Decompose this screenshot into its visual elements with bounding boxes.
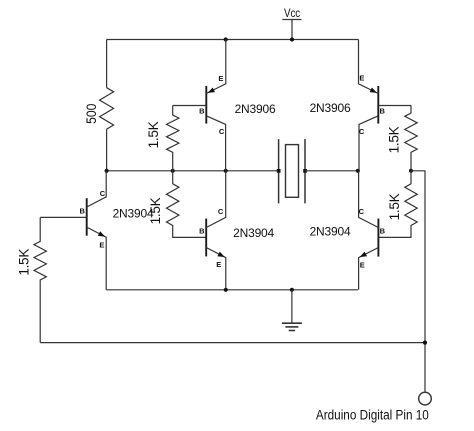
svg-text:C: C — [359, 207, 365, 216]
junction dot right R4 R5 — [409, 169, 413, 173]
junction dot Vcc rail — [290, 37, 294, 41]
resistor R2 1.5K upper-left — [167, 106, 179, 171]
svg-text:E: E — [216, 260, 221, 269]
svg-text:C: C — [359, 127, 365, 136]
wire mid rail right — [305, 170, 358, 172]
svg-text:Arduino Digital Pin 10: Arduino Digital Pin 10 — [316, 406, 429, 422]
resistor R5 1.5K lower-right — [378, 171, 417, 238]
resistor R6 1.5K feedback — [34, 217, 46, 342]
svg-text:C: C — [219, 127, 225, 136]
svg-text:2N3906: 2N3906 — [310, 101, 351, 115]
resistor R1 500 — [100, 88, 114, 130]
svg-text:B: B — [79, 207, 85, 216]
resistor R4 1.5K upper-right — [405, 106, 417, 171]
svg-text:1.5K: 1.5K — [386, 126, 401, 153]
transistor Q1 2N3904 left — [40, 171, 106, 290]
svg-text:Vcc: Vcc — [284, 7, 301, 20]
junction dot crystal left — [277, 169, 281, 173]
junction dot mid-left B — [171, 169, 175, 173]
svg-text:C: C — [218, 207, 224, 216]
transistor Q3 2N3904 middle — [199, 171, 226, 290]
wire emitter bottom — [106, 289, 358, 291]
wire right drop — [411, 171, 425, 392]
junction dot top rail Q2 emitter — [224, 37, 228, 41]
resistor R3 1.5K lower-left — [167, 171, 207, 238]
svg-text:1.5K: 1.5K — [387, 193, 402, 220]
svg-text:2N3906: 2N3906 — [235, 102, 276, 116]
svg-text:1.5K: 1.5K — [148, 197, 163, 224]
svg-text:B: B — [199, 107, 205, 116]
svg-text:500: 500 — [83, 104, 99, 124]
ground — [282, 290, 302, 331]
svg-text:E: E — [218, 74, 223, 83]
svg-text:E: E — [360, 260, 365, 269]
power Vcc symbol — [282, 20, 301, 40]
wire mid rail left — [107, 170, 279, 172]
svg-text:E: E — [99, 240, 104, 249]
svg-text:C: C — [100, 189, 106, 198]
transistor Q4 2N3906 right — [359, 40, 412, 171]
junction dot output — [423, 341, 427, 345]
junction dot mid-right — [356, 169, 360, 173]
svg-text:E: E — [359, 74, 364, 83]
svg-text:B: B — [379, 107, 385, 116]
junction dot Q3 emitter — [224, 288, 228, 292]
svg-text:1.5K: 1.5K — [146, 121, 161, 148]
junction dot mid-left A — [105, 169, 109, 173]
junction dot ground tap — [290, 288, 294, 292]
svg-text:B: B — [380, 227, 386, 236]
terminal Arduino pin — [419, 392, 432, 405]
wire feedback bottom — [40, 342, 425, 344]
junction dot mid-left C — [224, 169, 228, 173]
wire left rail lower — [106, 129, 108, 171]
svg-text:1.5K: 1.5K — [17, 249, 32, 276]
transistor Q5 2N3904 right — [359, 171, 386, 290]
svg-text:2N3904: 2N3904 — [310, 225, 351, 239]
wire left rail upper — [106, 40, 108, 88]
transistor Q2 2N3906 left — [173, 40, 226, 171]
wire top rail — [107, 39, 359, 41]
svg-text:2N3904: 2N3904 — [233, 226, 274, 240]
junction dot crystal right — [303, 169, 307, 173]
svg-text:B: B — [199, 227, 205, 236]
crystal Y1 — [279, 139, 305, 203]
